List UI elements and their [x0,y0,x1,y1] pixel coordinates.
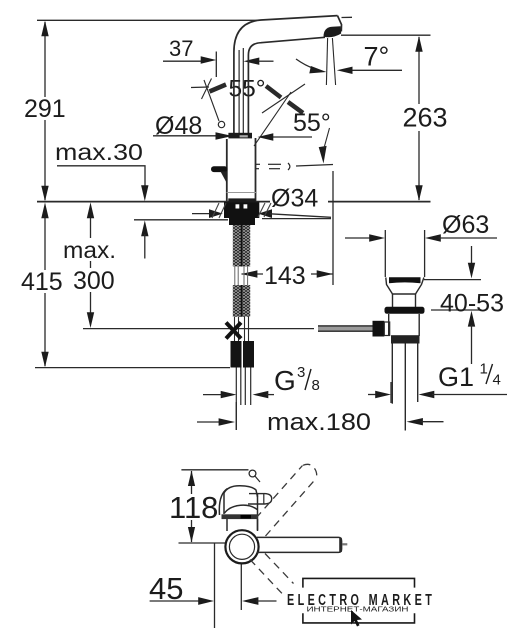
svg-text:max.180: max.180 [267,409,371,436]
svg-text:3: 3 [297,364,305,381]
svg-text:1: 1 [480,361,488,378]
svg-text:263: 263 [403,103,448,133]
svg-text:143: 143 [264,262,306,290]
svg-text:ИНТЕРНЕТ-МАГАЗИН: ИНТЕРНЕТ-МАГАЗИН [307,607,409,614]
svg-text:7°: 7° [364,42,390,72]
svg-text:300: 300 [73,267,115,295]
svg-text:37: 37 [169,36,193,61]
svg-text:291: 291 [24,95,66,123]
svg-text:Ø63: Ø63 [442,211,489,239]
svg-text:8: 8 [312,377,320,394]
svg-text:max.30: max.30 [55,139,143,165]
svg-text:G: G [274,365,296,396]
svg-text:40-53: 40-53 [440,290,504,318]
svg-text:G1: G1 [438,362,474,392]
svg-text:415: 415 [21,268,63,296]
svg-text:max.: max. [63,237,116,263]
svg-text:4: 4 [493,372,501,389]
svg-text:Ø34: Ø34 [271,185,318,213]
svg-text:55°: 55° [293,109,331,137]
svg-text:118: 118 [169,490,218,525]
